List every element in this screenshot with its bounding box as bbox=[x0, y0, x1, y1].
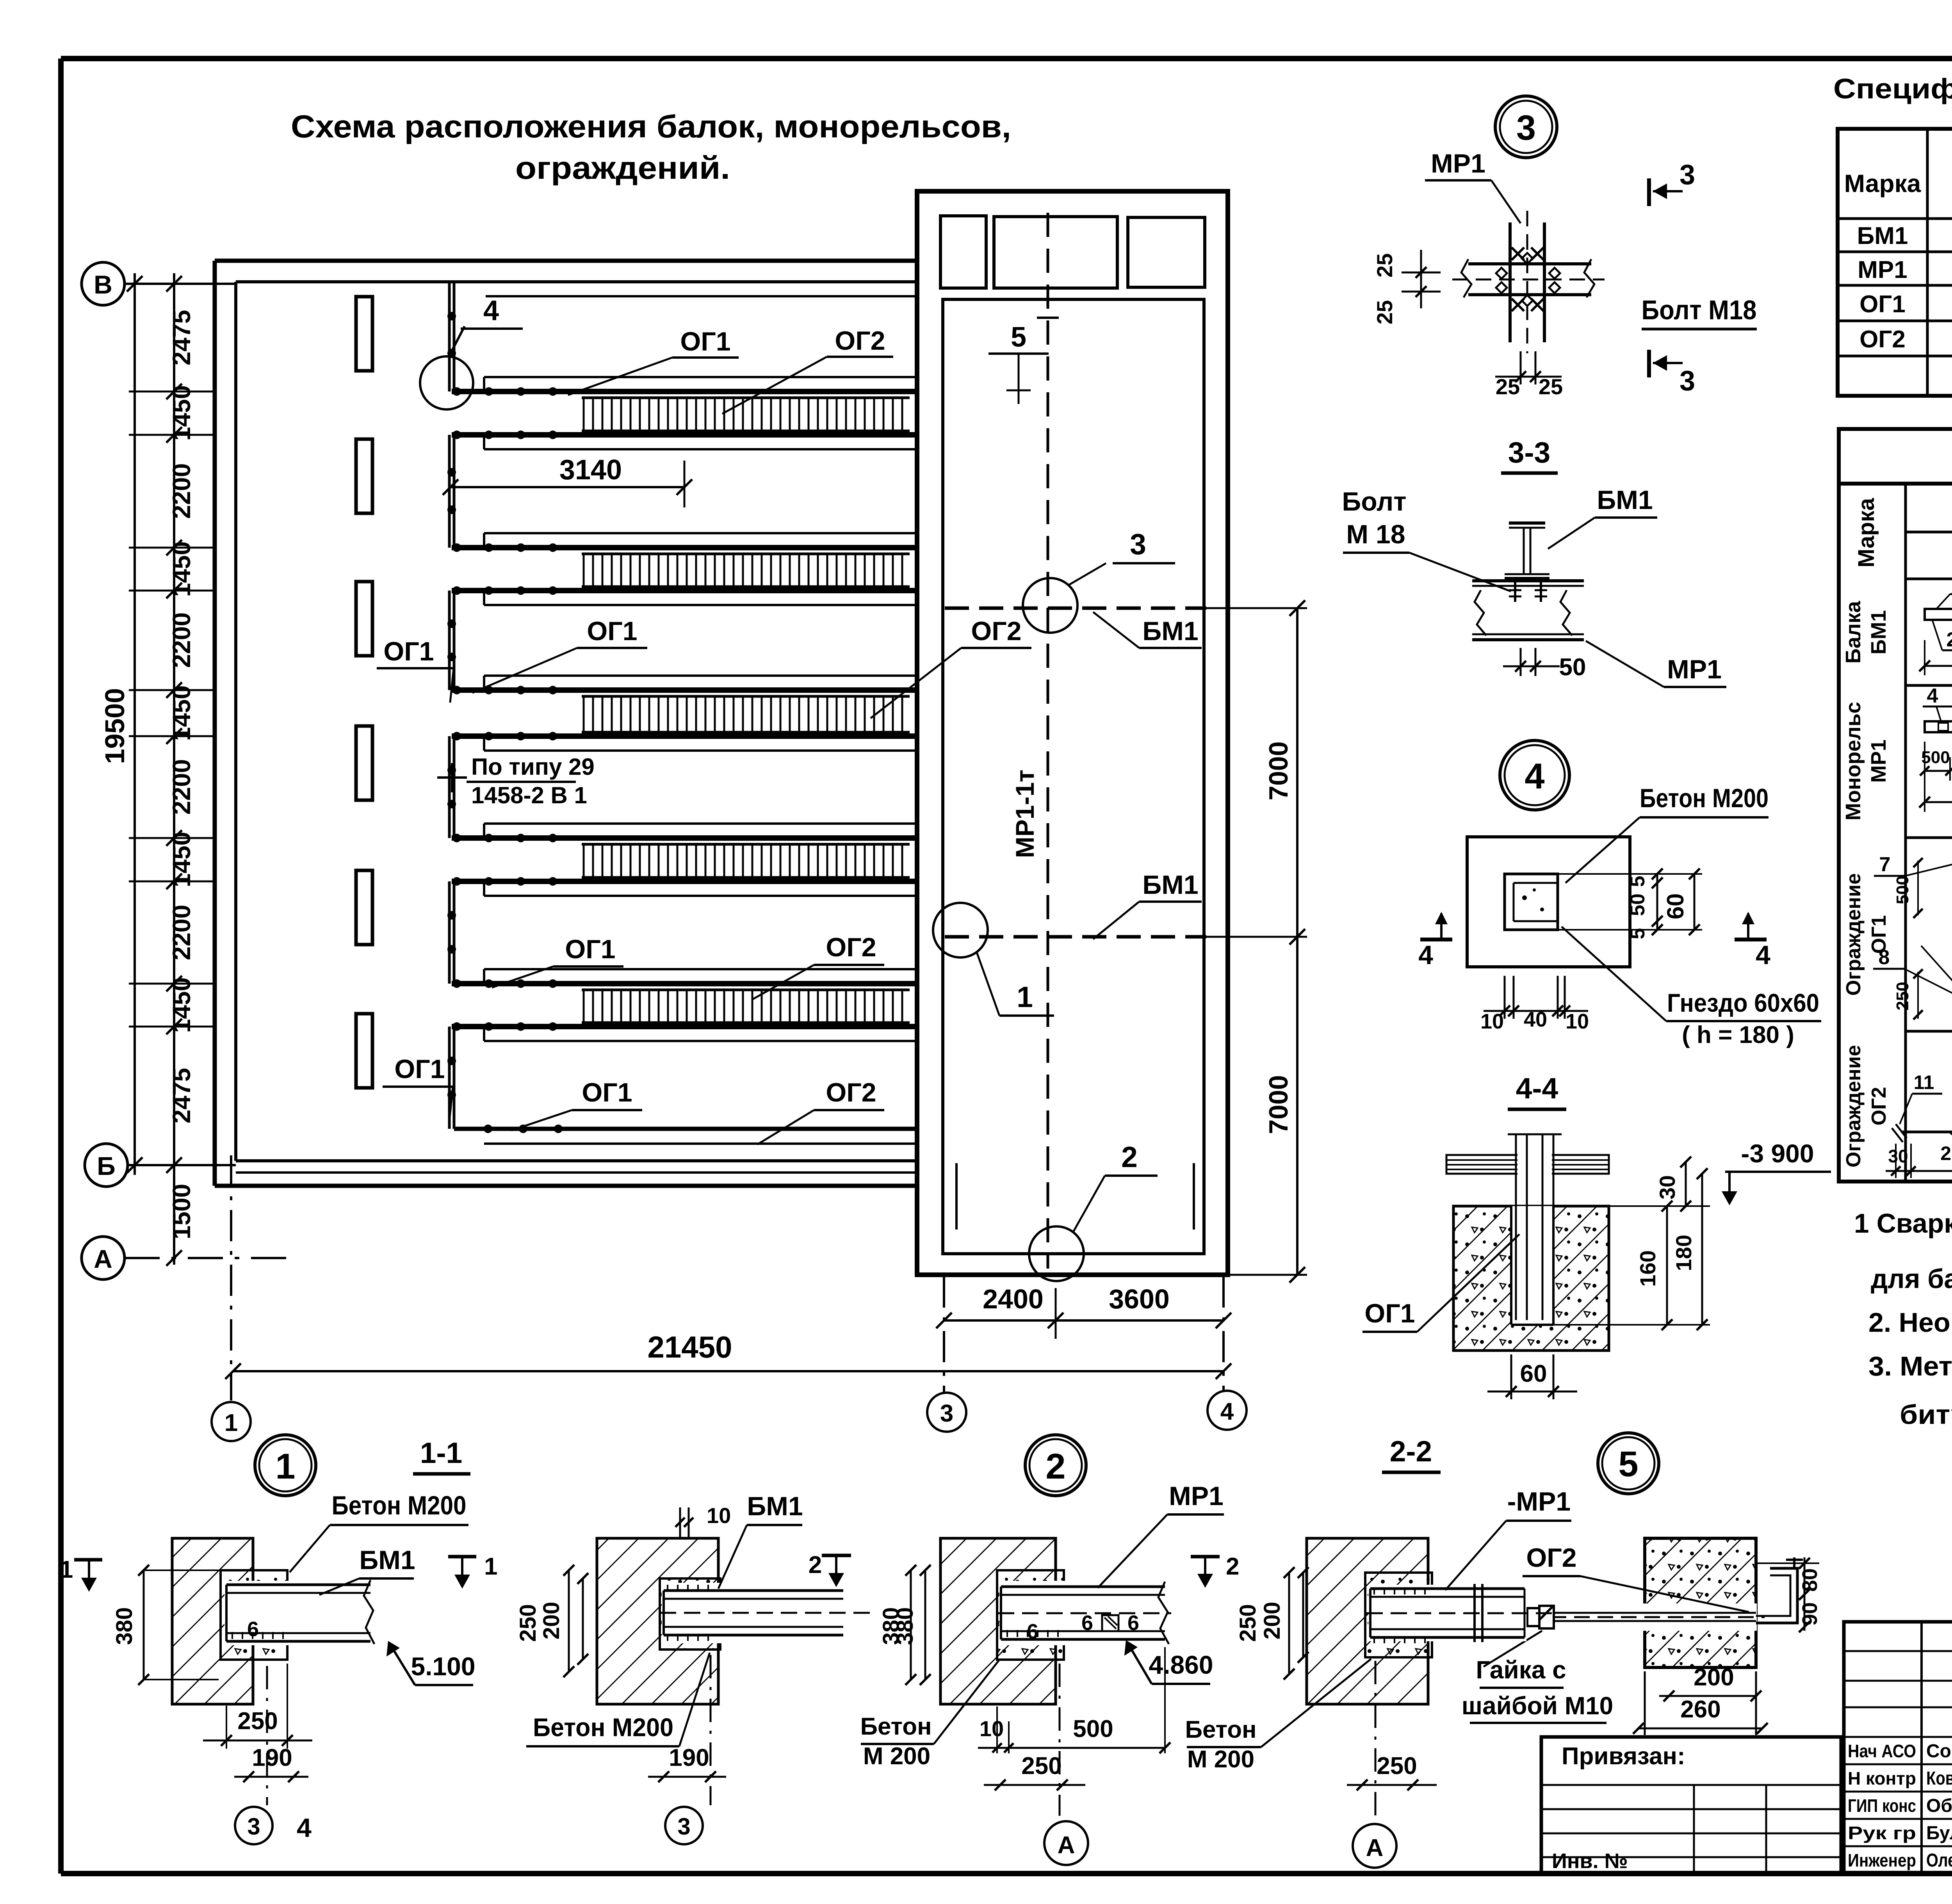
weld diamond marks det3 bbox=[1496, 268, 1507, 279]
svg-text:ОГ1: ОГ1 bbox=[394, 1054, 445, 1084]
svg-text:5: 5 bbox=[1618, 1444, 1638, 1484]
svg-text:По типу 29: По типу 29 bbox=[471, 754, 595, 780]
wall pilaster 1 bbox=[356, 297, 372, 371]
svg-text:250: 250 bbox=[1377, 1753, 1417, 1779]
grid bubble Б bbox=[85, 1144, 128, 1187]
vedomost table grid bbox=[1839, 484, 1952, 1182]
walkway 2 railings bbox=[484, 532, 917, 534]
detail 1 title circle bbox=[255, 1435, 316, 1496]
svg-text:2200: 2200 bbox=[167, 463, 196, 519]
svg-text:10: 10 bbox=[707, 1503, 731, 1528]
walkway 4 monorail ladder bbox=[582, 843, 910, 846]
wall pilaster 6 bbox=[356, 1014, 372, 1088]
svg-text:160: 160 bbox=[1635, 1250, 1660, 1287]
svg-text:1450: 1450 bbox=[167, 541, 196, 597]
svg-text:3-3: 3-3 bbox=[1508, 436, 1550, 469]
svg-text:3: 3 bbox=[677, 1813, 690, 1840]
dim 250 det1 bbox=[203, 1740, 312, 1742]
svg-text:1: 1 bbox=[224, 1409, 238, 1436]
bolts 3-3 bbox=[1514, 578, 1516, 602]
sketch fence ОГ2 bbox=[1901, 1131, 1952, 1134]
svg-text:200: 200 bbox=[539, 1602, 564, 1640]
bay 2 left railing wall bbox=[448, 591, 451, 690]
grid line 4 bbox=[1222, 1276, 1225, 1390]
grid bubble А bbox=[82, 1237, 125, 1279]
svg-text:Бетон М200: Бетон М200 bbox=[332, 1491, 467, 1520]
grid bubble 3 plan bbox=[927, 1393, 966, 1432]
bay 1 left railing wall bbox=[448, 435, 451, 548]
svg-text:2: 2 bbox=[809, 1552, 822, 1578]
svg-text:7: 7 bbox=[1879, 853, 1891, 876]
pit outer wall bbox=[917, 191, 1228, 1275]
svg-text:Ограждение: Ограждение bbox=[1842, 873, 1865, 996]
svg-text:Привязан:: Привязан: bbox=[1562, 1743, 1685, 1770]
svg-text:2: 2 bbox=[1226, 1553, 1239, 1580]
svg-text:Болт: Болт bbox=[1342, 487, 1406, 516]
hook ОГ2 det5 bbox=[1756, 1568, 1797, 1623]
svg-text:1458-2 В 1: 1458-2 В 1 bbox=[471, 782, 587, 808]
svg-text:1450: 1450 bbox=[167, 685, 196, 741]
wall pilaster 2 bbox=[356, 439, 372, 513]
left dimension chain bbox=[173, 273, 175, 1265]
svg-text:250: 250 bbox=[1021, 1753, 1061, 1779]
svg-text:1: 1 bbox=[484, 1553, 497, 1580]
axis line det2-2 bbox=[1375, 1661, 1377, 1816]
dimension 3140 bbox=[451, 486, 684, 488]
section flag 4 left bbox=[1420, 938, 1452, 941]
svg-text:250: 250 bbox=[1235, 1604, 1261, 1642]
bay 4 left railing wall bbox=[448, 881, 451, 984]
svg-text:190: 190 bbox=[669, 1744, 709, 1771]
wall section det1 bbox=[172, 1538, 253, 1704]
svg-text:МР1: МР1 bbox=[1169, 1481, 1224, 1511]
svg-text:3: 3 bbox=[247, 1813, 260, 1840]
svg-text:МР1: МР1 bbox=[1867, 739, 1890, 783]
section flag 3 top bbox=[1647, 178, 1651, 206]
dim 200 det1-1 bbox=[582, 1578, 584, 1659]
svg-text:30: 30 bbox=[1655, 1175, 1680, 1199]
svg-text:ОГ2: ОГ2 bbox=[835, 326, 885, 356]
dim 180 4-4 bbox=[1701, 1174, 1703, 1325]
svg-text:1450: 1450 bbox=[167, 385, 196, 441]
svg-text:4: 4 bbox=[1220, 1398, 1234, 1425]
pit inner wall bbox=[943, 299, 1204, 1254]
svg-text:ОГ1: ОГ1 bbox=[565, 934, 615, 964]
svg-text:10: 10 bbox=[1566, 1010, 1589, 1033]
stamp Привязан box bbox=[1541, 1737, 1841, 1873]
svg-text:А: А bbox=[94, 1244, 112, 1273]
svg-text:для балок и монорельсов , типа: для балок и монорельсов , типа Э42 для о… bbox=[1871, 1263, 1952, 1294]
svg-text:4: 4 bbox=[483, 295, 499, 326]
svg-text:4: 4 bbox=[1927, 685, 1938, 707]
dim 160 4-4 bbox=[1666, 1206, 1668, 1325]
dim 250 det2-2 bbox=[1288, 1573, 1290, 1674]
wall pilaster 5 bbox=[356, 870, 372, 945]
grid axis В bbox=[125, 283, 236, 285]
pit bottom slot line left bbox=[955, 1163, 958, 1230]
bottom bay railing bbox=[454, 1127, 917, 1131]
svg-text:50: 50 bbox=[1626, 893, 1649, 916]
wall pilaster 4 bbox=[356, 726, 372, 800]
svg-text:25: 25 bbox=[1496, 374, 1520, 399]
svg-text:МР1: МР1 bbox=[1667, 655, 1722, 684]
svg-text:3: 3 bbox=[1516, 109, 1536, 148]
МР1 beam bottom flange 3-3 bbox=[1472, 633, 1584, 635]
svg-text:40: 40 bbox=[1524, 1008, 1547, 1031]
detail 1 locator circle bbox=[933, 903, 988, 957]
svg-text:2: 2 bbox=[1947, 628, 1952, 651]
detail 3 locator circle bbox=[1023, 578, 1078, 633]
grid bubble А det2-2 bbox=[1353, 1824, 1396, 1868]
svg-text:2475: 2475 bbox=[167, 1068, 196, 1123]
section mark 1 right bbox=[448, 1555, 476, 1559]
dim 5 50 5 det4 bbox=[1656, 874, 1658, 930]
grid axis А bbox=[125, 1257, 293, 1259]
wall pilaster 3 bbox=[356, 582, 372, 656]
svg-text:ограждений.: ограждений. bbox=[515, 150, 730, 186]
svg-text:1: 1 bbox=[1017, 980, 1033, 1013]
svg-text:10: 10 bbox=[980, 1716, 1004, 1741]
dim 50 3-3 bbox=[1520, 648, 1522, 676]
svg-text:Булатова: Булатова bbox=[1926, 1823, 1952, 1843]
dim 250b det2-2 bbox=[1347, 1784, 1437, 1786]
svg-text:Болт М18: Болт М18 bbox=[1642, 295, 1757, 325]
svg-text:500: 500 bbox=[1893, 875, 1912, 904]
pit hatch cover 3 bbox=[1128, 217, 1205, 287]
dim 190 det1-1 bbox=[648, 1776, 726, 1778]
svg-text:10: 10 bbox=[1480, 1010, 1504, 1033]
svg-text:БМ1: БМ1 bbox=[747, 1491, 803, 1521]
dim 380 det1 bbox=[143, 1570, 145, 1680]
svg-text:ОГ2: ОГ2 bbox=[826, 932, 876, 962]
svg-text:Монорельс: Монорельс bbox=[1842, 702, 1865, 820]
svg-text:ОГ1: ОГ1 bbox=[680, 327, 730, 356]
svg-text:Гайка с: Гайка с bbox=[1476, 1656, 1566, 1684]
monorail centerline МР1-1т bbox=[1047, 213, 1049, 1269]
svg-text:3140: 3140 bbox=[559, 454, 622, 486]
dim 190 det1 bbox=[234, 1776, 308, 1778]
svg-text:-МР1: -МР1 bbox=[1507, 1487, 1571, 1516]
svg-text:4: 4 bbox=[1756, 940, 1770, 970]
svg-text:ОГ2: ОГ2 bbox=[1868, 1087, 1890, 1126]
dim 380 det2 bbox=[924, 1570, 926, 1680]
svg-text:260: 260 bbox=[1940, 1142, 1952, 1164]
grid line 3 bbox=[943, 1276, 945, 1392]
walkway 5 railings bbox=[484, 968, 917, 970]
БМ1 horizontal beam det3 bbox=[1468, 262, 1591, 265]
МР1 beam top flange 3-3 bbox=[1472, 579, 1584, 582]
grid bubble А det2 bbox=[1044, 1821, 1088, 1865]
svg-text:БМ1: БМ1 bbox=[1857, 222, 1908, 249]
beam БМ1 dashed line 2 bbox=[945, 935, 1206, 939]
sketch beam БМ1 bbox=[1925, 609, 1952, 620]
grid bubble 4 plan bbox=[1208, 1391, 1247, 1430]
svg-text:А: А bbox=[1366, 1835, 1384, 1861]
vedomost title band bbox=[1839, 429, 1952, 484]
dim 60 4-4 bbox=[1510, 1354, 1512, 1399]
walkway 3 monorail ladder bbox=[582, 695, 910, 698]
svg-text:МР1: МР1 bbox=[1858, 256, 1907, 283]
svg-text:Ограждение: Ограждение bbox=[1842, 1045, 1865, 1167]
svg-text:Олейникова: Олейникова bbox=[1926, 1850, 1952, 1871]
svg-text:Балка: Балка bbox=[1842, 601, 1865, 664]
svg-text:2: 2 bbox=[1045, 1447, 1065, 1486]
dim 250 det2 bbox=[984, 1784, 1085, 1786]
svg-text:ОГ2: ОГ2 bbox=[971, 616, 1021, 646]
dim 30 4-4 bbox=[1685, 1162, 1687, 1206]
dim 260 det5 bbox=[1639, 1728, 1762, 1730]
svg-text:ОГ1: ОГ1 bbox=[383, 637, 434, 666]
svg-text:Бетон М200: Бетон М200 bbox=[533, 1713, 673, 1742]
svg-text:4: 4 bbox=[1525, 756, 1544, 796]
axis line det1-1 bbox=[710, 1655, 712, 1805]
dim 10 det1-1 bbox=[679, 1507, 681, 1537]
svg-text:Марка: Марка bbox=[1844, 169, 1921, 198]
svg-text:В: В bbox=[94, 270, 112, 299]
dim 380 det1-1 bbox=[910, 1570, 912, 1680]
svg-text:25: 25 bbox=[1539, 374, 1563, 399]
svg-text:60: 60 bbox=[1662, 893, 1688, 920]
svg-text:500: 500 bbox=[1921, 748, 1950, 767]
svg-text:250: 250 bbox=[515, 1604, 541, 1642]
concrete pocket det2-2 bbox=[1365, 1573, 1432, 1657]
dim 25 left det3 bbox=[1402, 272, 1441, 274]
svg-text:М 200: М 200 bbox=[1187, 1746, 1254, 1773]
svg-text:7000: 7000 bbox=[1264, 741, 1293, 800]
svg-text:Схема расположения балок, мо: Схема расположения балок, монорельсов, bbox=[291, 109, 1011, 144]
det4 outer square bbox=[1467, 837, 1630, 967]
svg-text:БМ1: БМ1 bbox=[359, 1545, 415, 1575]
svg-text:50: 50 bbox=[1559, 654, 1586, 681]
concrete pocket det1-1 bbox=[660, 1578, 720, 1650]
svg-text:Б: Б bbox=[97, 1151, 115, 1180]
section mark 1 left bbox=[74, 1558, 102, 1562]
svg-text:5.100: 5.100 bbox=[411, 1652, 475, 1681]
svg-text:2475: 2475 bbox=[167, 310, 196, 365]
svg-text:1500: 1500 bbox=[167, 1184, 196, 1239]
dim 60 det4 bbox=[1694, 874, 1696, 930]
bay 3 left railing wall bbox=[448, 736, 451, 838]
detail 5 title circle bbox=[1598, 1433, 1659, 1494]
svg-text:Инженер: Инженер bbox=[1848, 1850, 1916, 1870]
svg-text:30: 30 bbox=[1888, 1146, 1908, 1166]
building bottom wall inner line bbox=[236, 1159, 917, 1162]
svg-text:Рук гр: Рук гр bbox=[1848, 1823, 1916, 1843]
grid line 1 bbox=[230, 1155, 232, 1400]
dim 250 det1-1 bbox=[568, 1570, 570, 1672]
section mark 2 det1-1 bbox=[822, 1554, 851, 1557]
svg-text:3: 3 bbox=[1680, 159, 1695, 190]
walkway 5 monorail ladder bbox=[582, 989, 910, 991]
weld X marks det3 bbox=[1512, 247, 1524, 260]
axis line det1 bbox=[266, 1666, 268, 1805]
detail 2 locator circle bbox=[1029, 1226, 1084, 1281]
pit hatch cover 1 bbox=[940, 216, 986, 288]
svg-text:Бетон: Бетон bbox=[860, 1713, 931, 1740]
svg-text:ОГ2: ОГ2 bbox=[1526, 1543, 1576, 1573]
svg-text:МР1: МР1 bbox=[1431, 149, 1485, 178]
svg-text:11: 11 bbox=[1914, 1071, 1934, 1093]
concrete pocket det1 bbox=[221, 1570, 287, 1660]
dim 200 det2-2 bbox=[1302, 1573, 1304, 1657]
svg-text:Н контр: Н контр bbox=[1848, 1768, 1916, 1788]
grid bubble 3 det1-1 bbox=[665, 1807, 703, 1844]
detail 2 title circle bbox=[1025, 1435, 1086, 1496]
section flag 4 right bbox=[1735, 938, 1767, 941]
label 4 leader bbox=[449, 326, 465, 356]
svg-text:200: 200 bbox=[1694, 1664, 1734, 1691]
svg-text:3: 3 bbox=[1680, 365, 1695, 397]
grid bubble В bbox=[82, 262, 125, 305]
wall section det1-1 bbox=[597, 1538, 718, 1704]
svg-text:6: 6 bbox=[1127, 1611, 1139, 1635]
svg-text:Сорокин: Сорокин bbox=[1926, 1741, 1952, 1762]
det4 channel socket bbox=[1505, 874, 1558, 930]
svg-text:Бетон: Бетон bbox=[1185, 1716, 1256, 1743]
svg-text:3: 3 bbox=[1130, 528, 1146, 561]
floor slab 4-4 bbox=[1446, 1155, 1609, 1174]
svg-text:ОГ1: ОГ1 bbox=[1364, 1299, 1415, 1328]
sketch monorail МР1 bbox=[1925, 721, 1952, 732]
svg-text:1-1: 1-1 bbox=[420, 1436, 462, 1469]
svg-text:МР1-1т: МР1-1т bbox=[1010, 770, 1039, 858]
grid bubble 1 bbox=[212, 1402, 251, 1441]
svg-text:Марка: Марка bbox=[1854, 498, 1879, 568]
svg-text:6: 6 bbox=[1027, 1620, 1038, 1643]
svg-text:БМ1: БМ1 bbox=[1142, 616, 1198, 646]
slot 4-4 bbox=[1511, 1206, 1553, 1325]
svg-text:ОГ1: ОГ1 bbox=[1859, 291, 1906, 318]
building top wall inner line bbox=[236, 280, 917, 283]
svg-text:2-2: 2-2 bbox=[1390, 1435, 1432, 1468]
svg-text:200: 200 bbox=[1259, 1602, 1285, 1640]
fence post 4-4 bbox=[1515, 1134, 1517, 1320]
svg-text:шайбой М10: шайбой М10 bbox=[1462, 1692, 1614, 1720]
svg-text:-3 900: -3 900 bbox=[1741, 1139, 1814, 1168]
svg-text:250: 250 bbox=[1893, 982, 1912, 1010]
dim 200 det5 bbox=[1644, 1671, 1646, 1735]
svg-text:4-4: 4-4 bbox=[1516, 1072, 1558, 1105]
dimension 2400 3600 bbox=[944, 1319, 1224, 1322]
svg-text:1: 1 bbox=[275, 1447, 295, 1486]
section flag 3 bottom bbox=[1647, 350, 1651, 377]
svg-text:4: 4 bbox=[297, 1813, 312, 1843]
svg-text:21450: 21450 bbox=[648, 1330, 732, 1364]
svg-text:М 18: М 18 bbox=[1346, 520, 1405, 549]
walkway 1 monorail ladder bbox=[582, 397, 910, 399]
svg-text:А: А bbox=[1058, 1832, 1075, 1859]
concrete pocket det2 bbox=[997, 1570, 1064, 1660]
bay 5 left railing wall bbox=[448, 1027, 451, 1129]
detail 4 locator circle on plan bbox=[420, 356, 473, 409]
svg-text:6: 6 bbox=[247, 1618, 259, 1641]
bay 0 left railing wall bbox=[448, 282, 451, 391]
БМ1 I-beam section bbox=[1509, 521, 1545, 525]
svg-text:2200: 2200 bbox=[167, 612, 196, 668]
fence edge line along bottom wall bbox=[484, 1142, 917, 1145]
pit hatch cover 2 bbox=[994, 217, 1117, 288]
svg-text:5: 5 bbox=[1626, 876, 1649, 887]
label 3 leader bbox=[1069, 563, 1106, 585]
detail 3 title circle bbox=[1495, 96, 1557, 158]
svg-text:Спецификация к схеме распо: Спецификация к схеме расположенной на bbox=[1833, 73, 1952, 105]
svg-text:1 Сварку производить электрод: 1 Сварку производить электродами типа Э4… bbox=[1854, 1208, 1952, 1238]
spec table grid bbox=[1838, 129, 1952, 396]
beam БМ1 dashed line 1 bbox=[945, 607, 1206, 610]
svg-text:7000: 7000 bbox=[1264, 1075, 1293, 1134]
svg-text:БМ1: БМ1 bbox=[1597, 485, 1653, 515]
svg-text:25: 25 bbox=[1372, 300, 1397, 324]
svg-text:БМ1: БМ1 bbox=[1867, 610, 1890, 655]
svg-text:60: 60 bbox=[1520, 1360, 1547, 1387]
svg-text:ОГ2: ОГ2 bbox=[826, 1078, 876, 1107]
dim 500 det2 bbox=[1009, 1747, 1165, 1749]
building bottom wall outer line bbox=[215, 1184, 917, 1188]
svg-text:1450: 1450 bbox=[167, 832, 196, 887]
walkway 4 railings bbox=[484, 822, 917, 825]
svg-text:250: 250 bbox=[237, 1708, 278, 1735]
svg-text:4.860: 4.860 bbox=[1149, 1650, 1213, 1679]
pit bottom slot line right bbox=[1193, 1163, 1195, 1230]
svg-text:260: 260 bbox=[1680, 1696, 1720, 1723]
svg-text:ГИП конс: ГИП конс bbox=[1848, 1795, 1916, 1816]
svg-text:( h = 180 ): ( h = 180 ) bbox=[1682, 1021, 1794, 1048]
svg-text:5: 5 bbox=[1011, 322, 1026, 353]
svg-text:8: 8 bbox=[1879, 946, 1890, 969]
svg-text:БМ1: БМ1 bbox=[1142, 870, 1198, 900]
walkway 3 railings bbox=[484, 674, 917, 677]
dim 25 25 bottom det3 bbox=[1520, 351, 1522, 384]
МР1 vertical beam det3 bbox=[1509, 222, 1512, 342]
building bottom wall mid line bbox=[236, 1171, 917, 1174]
stamp Привязан grid bbox=[1541, 1784, 1841, 1786]
walkway 2 monorail ladder bbox=[582, 553, 910, 555]
dimension 21450 bbox=[233, 1370, 1224, 1372]
svg-text:ОГ1: ОГ1 bbox=[582, 1078, 632, 1107]
svg-text:ОГ1: ОГ1 bbox=[587, 616, 637, 646]
svg-text:90: 90 bbox=[1798, 1602, 1822, 1626]
grid bubble 3 det1 bbox=[235, 1807, 272, 1844]
building top wall outer line bbox=[215, 259, 917, 263]
walkway 1 railings bbox=[484, 376, 917, 378]
beam БМ1 det1 bbox=[224, 1581, 371, 1645]
section mark 2 det2 bbox=[1191, 1555, 1220, 1559]
concrete block det5 bbox=[1645, 1538, 1756, 1667]
svg-text:500: 500 bbox=[1073, 1715, 1113, 1742]
svg-text:2200: 2200 bbox=[167, 759, 196, 815]
building left wall outer line bbox=[213, 261, 217, 1186]
svg-text:2. Неоговоренные сварные швы: 2. Неоговоренные сварные швы hш=4мм. bbox=[1868, 1307, 1952, 1338]
svg-text:80: 80 bbox=[1798, 1568, 1822, 1592]
svg-text:Ковалинина: Ковалинина bbox=[1926, 1768, 1952, 1789]
beam БМ1 det1-1 bbox=[662, 1583, 844, 1643]
svg-text:3600: 3600 bbox=[1109, 1284, 1170, 1314]
detail 4 title circle bbox=[1500, 740, 1569, 810]
svg-text:190: 190 bbox=[252, 1744, 292, 1771]
svg-text:1450: 1450 bbox=[167, 977, 196, 1033]
floor break at post 4-4 bbox=[1517, 1153, 1552, 1176]
axis line det2 bbox=[1059, 1664, 1061, 1816]
svg-text:битумным лаком за 2 раза.: битумным лаком за 2 раза. bbox=[1900, 1399, 1952, 1430]
svg-text:М 200: М 200 bbox=[863, 1743, 930, 1770]
svg-text:180: 180 bbox=[1671, 1235, 1696, 1271]
dim 80 90 det5 bbox=[1804, 1557, 1806, 1631]
concrete block 4-4 bbox=[1453, 1206, 1609, 1351]
beam МР1 det2-2 bbox=[1368, 1585, 1526, 1641]
anchor bolt det5 bbox=[1527, 1603, 1757, 1631]
svg-text:Нач АСО: Нач АСО bbox=[1848, 1741, 1916, 1761]
svg-text:2200: 2200 bbox=[167, 905, 196, 960]
